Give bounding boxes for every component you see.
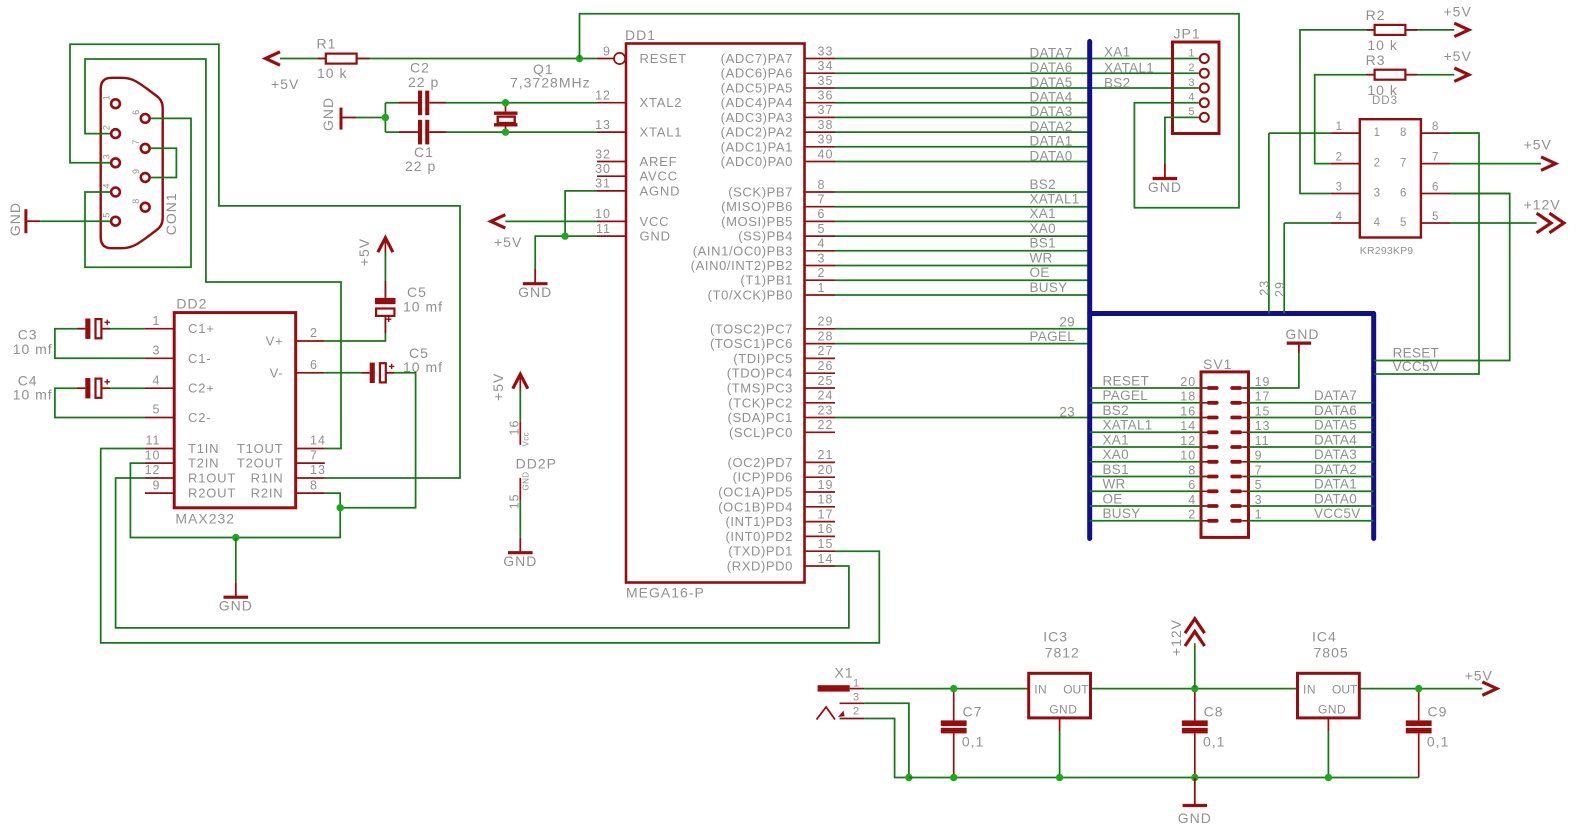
svg-text:+12V: +12V bbox=[1168, 619, 1184, 656]
svg-text:6: 6 bbox=[1432, 182, 1439, 194]
svg-text:DATA1: DATA1 bbox=[1314, 477, 1357, 492]
svg-text:(ICP)PD6: (ICP)PD6 bbox=[733, 470, 793, 485]
svg-text:(TDI)PC5: (TDI)PC5 bbox=[733, 351, 793, 366]
svg-text:4: 4 bbox=[1188, 92, 1195, 104]
svg-text:22 p: 22 p bbox=[408, 74, 439, 90]
svg-text:BUSY: BUSY bbox=[1030, 280, 1068, 295]
wire wire +5V to R1 bbox=[280, 58, 326, 60]
wire net WR (DD1 PB to bus) bbox=[835, 265, 1090, 267]
capacitor C1 bbox=[418, 120, 422, 145]
wire wire 23 (DD3 pin1 down to bus box) bbox=[1268, 133, 1270, 313]
wire DD2 gnd stub bbox=[235, 538, 237, 583]
wire wire DD3 pin7 to +5V bbox=[1450, 163, 1541, 165]
svg-text:(SCK)PB7: (SCK)PB7 bbox=[728, 185, 793, 200]
svg-text:5: 5 bbox=[102, 213, 112, 218]
DD1 left pin numbers bbox=[595, 44, 611, 236]
svg-text:GND: GND bbox=[1049, 703, 1077, 717]
wire net RESET (bus box to DD3 pin6) bbox=[1374, 194, 1510, 361]
svg-text:10 k: 10 k bbox=[1367, 82, 1397, 98]
svg-text:32: 32 bbox=[595, 147, 611, 161]
svg-text:C8: C8 bbox=[1204, 703, 1224, 719]
wire wire RESET to JP1 pin 4 (top loop) bbox=[580, 14, 1240, 208]
wire wire JP1 pin5 to GND bbox=[1165, 117, 1199, 163]
svg-text:16: 16 bbox=[508, 420, 522, 436]
svg-text:DATA6: DATA6 bbox=[1030, 60, 1073, 75]
svg-text:8: 8 bbox=[1432, 121, 1439, 133]
svg-text:6: 6 bbox=[310, 358, 318, 372]
wire wire DATA2 SV1 to bus box bbox=[1249, 476, 1374, 478]
ground symbol GND (SV1 pin19) bbox=[1298, 345, 1300, 354]
svg-text:RESET: RESET bbox=[640, 51, 687, 66]
wire net DATA1 (DD1 PA1 to bus) bbox=[835, 146, 1090, 148]
svg-text:14: 14 bbox=[1180, 419, 1196, 433]
svg-text:+5V: +5V bbox=[1524, 137, 1552, 153]
svg-text:19: 19 bbox=[1255, 375, 1271, 389]
svg-text:10 mf: 10 mf bbox=[13, 341, 53, 357]
svg-text:5: 5 bbox=[818, 222, 826, 236]
junction junction Q1 top bbox=[502, 99, 509, 106]
svg-text:2: 2 bbox=[818, 266, 826, 280]
svg-text:X1: X1 bbox=[835, 665, 854, 681]
svg-text:R2: R2 bbox=[1366, 7, 1386, 23]
capacitor C3 bbox=[85, 319, 90, 339]
svg-text:(ADC7)PA7: (ADC7)PA7 bbox=[721, 51, 793, 66]
svg-text:(TXD)PD1: (TXD)PD1 bbox=[728, 544, 793, 559]
wire wire DATA0 SV1 to bus box bbox=[1249, 505, 1374, 507]
junction junction C8 bottom bbox=[1191, 774, 1198, 781]
svg-text:20: 20 bbox=[818, 463, 834, 477]
ground symbol GND (CON1 pin5) bbox=[27, 220, 40, 222]
svg-text:C2-: C2- bbox=[188, 410, 211, 425]
svg-text:(ADC1)PA1: (ADC1)PA1 bbox=[721, 139, 793, 154]
svg-text:DATA2: DATA2 bbox=[1030, 119, 1073, 134]
power symbol +5V (left of R1) bbox=[266, 52, 281, 65]
svg-text:7: 7 bbox=[310, 448, 318, 462]
wire wire C5 to R2IN branch bbox=[340, 373, 415, 508]
svg-text:24: 24 bbox=[818, 389, 834, 403]
wire wire GND stub to junction bbox=[356, 117, 385, 119]
wire net DATA7 (DD1 PA7 to bus) bbox=[835, 58, 1199, 60]
wire net 29 (DD1 PC7 to bus) bbox=[835, 328, 1090, 330]
svg-text:XA1: XA1 bbox=[1030, 206, 1056, 221]
svg-text:(AIN1/OC0)PB3: (AIN1/OC0)PB3 bbox=[693, 243, 793, 258]
svg-text:DATA7: DATA7 bbox=[1030, 45, 1073, 60]
wire wire C3+ to DD2 pin1 bbox=[101, 328, 145, 330]
svg-text:XA0: XA0 bbox=[1030, 221, 1056, 236]
wire wire DD3 pin1 left to 23 bbox=[1269, 132, 1331, 134]
wire net XA0 (DD1 PB to bus) bbox=[835, 235, 1090, 237]
SV1 pads and pin stubs bbox=[1201, 386, 1249, 523]
svg-text:3: 3 bbox=[1374, 188, 1381, 200]
wire wire C2/C1 left junction bbox=[384, 103, 386, 132]
wire wire +5V to DD1 VCC bbox=[505, 220, 597, 222]
svg-text:WR: WR bbox=[1103, 477, 1126, 492]
svg-text:Vcc: Vcc bbox=[522, 432, 531, 447]
svg-text:(INT1)PD3: (INT1)PD3 bbox=[725, 514, 793, 529]
svg-text:IN: IN bbox=[1034, 682, 1047, 696]
DD3 pin numbers bbox=[1336, 121, 1440, 223]
svg-text:C9: C9 bbox=[1428, 703, 1448, 719]
svg-text:7: 7 bbox=[1255, 463, 1263, 477]
svg-text:DATA4: DATA4 bbox=[1030, 90, 1073, 105]
svg-text:DATA3: DATA3 bbox=[1030, 104, 1073, 119]
svg-text:9: 9 bbox=[153, 478, 161, 492]
wire wire CON1 pin5 to GND bbox=[40, 220, 110, 222]
ground symbol GND (DD2P) bbox=[519, 538, 521, 553]
svg-text:XATAL1: XATAL1 bbox=[1104, 60, 1154, 75]
junction junction Q1 bottom bbox=[502, 128, 509, 135]
svg-text:GND: GND bbox=[1285, 326, 1319, 342]
svg-text:(TDO)PC4: (TDO)PC4 bbox=[727, 366, 793, 381]
wire wire R1OUT to DD1 RXD PD0 bbox=[116, 478, 849, 628]
wire wire CON1 pin3 to DD2 R1IN bbox=[70, 44, 460, 478]
junction junction R2IN/C5- bbox=[337, 504, 344, 511]
capacitor C5 (V-) bbox=[370, 363, 375, 383]
wire wire XTAL2 net bbox=[430, 102, 597, 104]
svg-text:13: 13 bbox=[595, 118, 611, 132]
svg-text:16: 16 bbox=[1180, 404, 1196, 418]
svg-text:29: 29 bbox=[1273, 281, 1287, 297]
svg-text:7: 7 bbox=[1400, 158, 1407, 170]
power symbol +5V (DD3 pin7) bbox=[1541, 157, 1556, 170]
resistor R3 bbox=[1375, 70, 1406, 80]
wire net DATA4 (DD1 PA4 to bus) bbox=[835, 102, 1090, 104]
svg-text:DATA3: DATA3 bbox=[1314, 447, 1357, 462]
wire wire DATA6 SV1 to bus box bbox=[1249, 417, 1374, 419]
svg-text:+5V: +5V bbox=[1444, 3, 1472, 19]
svg-text:GND: GND bbox=[1318, 703, 1346, 717]
wire net PAGEL (DD1 PC6 to bus) bbox=[835, 343, 1090, 345]
svg-text:1: 1 bbox=[1188, 47, 1195, 59]
ground symbol GND (crystal caps) bbox=[342, 117, 356, 119]
svg-text:GND: GND bbox=[1178, 810, 1212, 826]
wire wire X1 pin3 down bbox=[864, 703, 909, 777]
svg-text:15: 15 bbox=[818, 537, 834, 551]
svg-text:R2OUT: R2OUT bbox=[188, 486, 236, 501]
svg-text:(ADC0)PA0: (ADC0)PA0 bbox=[721, 154, 793, 169]
wire wire DATA3 SV1 to bus box bbox=[1249, 461, 1374, 463]
svg-text:0,1: 0,1 bbox=[1427, 734, 1449, 750]
svg-text:23: 23 bbox=[818, 403, 834, 417]
svg-text:2: 2 bbox=[1374, 158, 1381, 170]
svg-text:3: 3 bbox=[153, 344, 161, 358]
svg-text:13: 13 bbox=[310, 463, 326, 477]
wire wire CON1 pin2 to DD2 T1OUT bbox=[85, 59, 341, 449]
svg-text:10 k: 10 k bbox=[317, 65, 347, 81]
wire IC3 GND pin bbox=[1059, 718, 1061, 731]
DD1 right pin stubs bbox=[805, 59, 836, 567]
voltage regulator IC4 7805 bbox=[1298, 673, 1360, 718]
svg-text:(ADC6)PA6: (ADC6)PA6 bbox=[721, 66, 793, 81]
svg-text:30: 30 bbox=[595, 162, 611, 176]
DD3 pin names (inside) bbox=[1374, 127, 1408, 229]
wire wire DD2 V- to C5 bbox=[325, 372, 370, 374]
svg-text:+12V: +12V bbox=[1524, 197, 1561, 213]
svg-text:GND: GND bbox=[518, 284, 552, 300]
wire wire DD1 GND pin bbox=[535, 236, 597, 269]
svg-text:R1IN: R1IN bbox=[251, 471, 284, 486]
wire IC4 GND pin bbox=[1327, 718, 1329, 731]
connector CON1 DB9 outline bbox=[101, 78, 163, 248]
svg-text:19: 19 bbox=[818, 478, 834, 492]
junction junction C9 top bbox=[1415, 685, 1422, 692]
svg-text:GND: GND bbox=[219, 598, 253, 614]
svg-text:+5V: +5V bbox=[490, 373, 506, 401]
svg-text:31: 31 bbox=[595, 177, 611, 191]
wire wire C4+ to DD2 pin4 bbox=[101, 387, 145, 389]
svg-text:(SS)PB4: (SS)PB4 bbox=[738, 229, 793, 244]
svg-text:1: 1 bbox=[153, 314, 161, 328]
svg-text:23: 23 bbox=[1258, 280, 1272, 296]
svg-text:(TCK)PC2: (TCK)PC2 bbox=[728, 395, 793, 410]
wire wire C5 to DD2 V+ bbox=[325, 316, 386, 341]
svg-text:(T0/XCK)PB0: (T0/XCK)PB0 bbox=[708, 288, 793, 303]
capacitor C2 bbox=[418, 91, 422, 116]
svg-text:4: 4 bbox=[102, 183, 112, 188]
svg-text:12: 12 bbox=[1180, 434, 1196, 448]
wire wire DD3 pin5 to +12V bbox=[1450, 222, 1537, 224]
power symbol +5V (output rail) bbox=[1482, 682, 1497, 695]
junction junction AGND/GND bbox=[561, 232, 568, 239]
wire wire DATA7 SV1 to bus box bbox=[1249, 402, 1374, 404]
svg-text:11: 11 bbox=[596, 222, 611, 236]
svg-text:VCC: VCC bbox=[640, 214, 670, 229]
svg-text:3: 3 bbox=[1188, 77, 1195, 89]
wire wire BUSY bus to SV1 bbox=[1090, 520, 1201, 522]
wire wire X1 pin2 down to rail bbox=[864, 719, 909, 778]
svg-text:BS1: BS1 bbox=[1103, 462, 1129, 477]
svg-text:5: 5 bbox=[1188, 106, 1195, 118]
svg-text:7: 7 bbox=[818, 193, 826, 207]
power symbol +5V (R3) bbox=[1454, 68, 1469, 81]
wire wire OE bus to SV1 bbox=[1090, 505, 1201, 507]
svg-text:5: 5 bbox=[1255, 478, 1263, 492]
svg-text:26: 26 bbox=[818, 359, 834, 373]
svg-text:DATA6: DATA6 bbox=[1314, 403, 1357, 418]
svg-text:7812: 7812 bbox=[1045, 645, 1080, 661]
svg-text:25: 25 bbox=[818, 374, 834, 388]
svg-text:5: 5 bbox=[153, 403, 161, 417]
wire wire DD3 pin8 to VCC5V bbox=[1450, 132, 1479, 134]
svg-text:XA1: XA1 bbox=[1104, 45, 1130, 60]
svg-text:9: 9 bbox=[131, 169, 141, 174]
svg-text:11: 11 bbox=[146, 434, 161, 448]
DD1 right pin numbers bbox=[818, 44, 834, 566]
svg-text:39: 39 bbox=[818, 133, 834, 147]
power symbol +5V (DD2P) bbox=[513, 374, 528, 389]
svg-text:R3: R3 bbox=[1366, 52, 1386, 68]
svg-text:DATA7: DATA7 bbox=[1314, 388, 1357, 403]
svg-text:12: 12 bbox=[145, 463, 161, 477]
wire net DATA5 (DD1 PA5 to bus) bbox=[835, 87, 1199, 89]
svg-text:RESET: RESET bbox=[1103, 373, 1150, 388]
svg-text:22 p: 22 p bbox=[405, 158, 436, 174]
wire wire +5V to C5 bbox=[384, 252, 386, 298]
svg-text:4: 4 bbox=[1188, 493, 1196, 507]
ground symbol GND (DD1) bbox=[534, 269, 536, 284]
wire wire +5V to DD2P VCC bbox=[519, 389, 521, 422]
svg-text:R2IN: R2IN bbox=[251, 486, 284, 501]
power symbol +5V (DD1 VCC) bbox=[491, 215, 506, 228]
svg-text:4: 4 bbox=[1374, 217, 1381, 229]
wire wire VCC5V SV1 to bus box bbox=[1249, 520, 1374, 522]
svg-text:T1OUT: T1OUT bbox=[237, 441, 284, 456]
svg-text:WR: WR bbox=[1030, 250, 1053, 265]
wire net DATA2 (DD1 PA2 to bus) bbox=[835, 131, 1090, 133]
crystal Q1 bbox=[494, 113, 518, 125]
CON1 pins 6-9 pads bbox=[131, 110, 149, 212]
svg-text:14: 14 bbox=[818, 552, 834, 566]
wire net BS2 (DD1 PB to bus) bbox=[835, 191, 1090, 193]
DD1 left pin stubs bbox=[597, 59, 626, 237]
svg-text:1: 1 bbox=[1255, 508, 1263, 522]
capacitor C5 (V+) bbox=[375, 298, 396, 304]
svg-text:5: 5 bbox=[1432, 211, 1439, 223]
svg-text:10: 10 bbox=[1180, 449, 1196, 463]
svg-text:1: 1 bbox=[1336, 121, 1343, 133]
svg-text:10 mf: 10 mf bbox=[403, 299, 443, 315]
svg-text:R1OUT: R1OUT bbox=[188, 471, 236, 486]
wire wire XTAL1 net bbox=[430, 131, 597, 133]
resistor R2 bbox=[1375, 25, 1406, 35]
wire wire DATA5 SV1 to bus box bbox=[1249, 431, 1374, 433]
svg-text:IN: IN bbox=[1303, 682, 1316, 696]
pin stubs (resistors/caps) bbox=[77, 30, 1417, 388]
power pin DD2P VCC pin16 bbox=[519, 421, 521, 445]
svg-text:(ADC5)PA5: (ADC5)PA5 bbox=[721, 81, 793, 96]
svg-text:(OC2)PD7: (OC2)PD7 bbox=[728, 455, 793, 470]
svg-text:13: 13 bbox=[1255, 419, 1271, 433]
svg-text:(MOSI)PB5: (MOSI)PB5 bbox=[721, 214, 793, 229]
svg-text:(TOSC2)PC7: (TOSC2)PC7 bbox=[710, 321, 793, 336]
svg-text:DATA2: DATA2 bbox=[1314, 462, 1357, 477]
svg-text:GND: GND bbox=[320, 97, 336, 131]
svg-text:8: 8 bbox=[818, 178, 826, 192]
svg-text:17: 17 bbox=[818, 507, 834, 521]
svg-text:(OC1B)PD4: (OC1B)PD4 bbox=[718, 499, 793, 514]
junction junction IC3 GND bbox=[1056, 774, 1063, 781]
svg-text:10 k: 10 k bbox=[1367, 37, 1397, 53]
svg-text:XATAL1: XATAL1 bbox=[1030, 192, 1080, 207]
wire wire T2IN to R2IN bbox=[130, 463, 340, 537]
junction junction C7 bottom bbox=[950, 774, 957, 781]
wire net BUSY (DD1 PB to bus) bbox=[835, 294, 1090, 296]
power symbol +12V (DD3 pin5) bbox=[1549, 213, 1564, 233]
svg-text:7: 7 bbox=[131, 140, 141, 145]
svg-text:6: 6 bbox=[818, 207, 826, 221]
svg-text:8: 8 bbox=[131, 199, 141, 204]
svg-text:V+: V+ bbox=[266, 334, 284, 349]
wire wire AGND down bbox=[565, 191, 597, 236]
wire wire XA0 bus to SV1 bbox=[1090, 461, 1201, 463]
svg-text:C7: C7 bbox=[963, 703, 983, 719]
power pin DD2P GND pin15 bbox=[519, 478, 521, 500]
svg-text:(T1)PB1: (T1)PB1 bbox=[740, 273, 793, 288]
svg-text:BUSY: BUSY bbox=[1103, 506, 1141, 521]
svg-text:(TOSC1)PC6: (TOSC1)PC6 bbox=[710, 336, 793, 351]
svg-text:8: 8 bbox=[1188, 463, 1196, 477]
svg-text:10: 10 bbox=[145, 448, 161, 462]
svg-text:11: 11 bbox=[1255, 434, 1270, 448]
svg-text:BS2: BS2 bbox=[1103, 403, 1129, 418]
svg-text:18: 18 bbox=[1180, 390, 1196, 404]
svg-text:12: 12 bbox=[595, 89, 611, 103]
wire wire XATAL1 bus to SV1 bbox=[1090, 431, 1201, 433]
svg-text:40: 40 bbox=[818, 147, 834, 161]
svg-text:MAX232: MAX232 bbox=[175, 511, 235, 527]
DD2 pin stubs bbox=[145, 329, 325, 493]
svg-text:XA0: XA0 bbox=[1103, 447, 1129, 462]
connector SV1 body bbox=[1201, 372, 1249, 538]
junction junction C7 top bbox=[950, 685, 957, 692]
svg-text:33: 33 bbox=[818, 44, 834, 58]
svg-text:DD2P: DD2P bbox=[516, 456, 557, 472]
wire net DATA0 (DD1 PA0 to bus) bbox=[835, 161, 1090, 163]
junction junction crystal gnd bbox=[382, 114, 389, 121]
DD1 left pin names bbox=[640, 51, 687, 244]
svg-text:(OC1A)PD5: (OC1A)PD5 bbox=[718, 485, 793, 500]
svg-text:9: 9 bbox=[1255, 449, 1263, 463]
wire wire R2 to +5V bbox=[1405, 29, 1454, 31]
svg-text:BS2: BS2 bbox=[1030, 177, 1056, 192]
junction RESET net junction bbox=[576, 55, 583, 62]
wire net XA1 (DD1 PB to bus) bbox=[835, 220, 1090, 222]
svg-text:R1: R1 bbox=[317, 36, 337, 52]
svg-text:29: 29 bbox=[1059, 315, 1075, 330]
svg-text:C2+: C2+ bbox=[188, 381, 215, 396]
bus box around SV1 bbox=[1090, 314, 1374, 539]
svg-text:10 mf: 10 mf bbox=[13, 387, 53, 403]
connector JP1 bbox=[1173, 42, 1220, 134]
svg-text:V-: V- bbox=[270, 365, 284, 380]
wire wire PAGEL bus to SV1 bbox=[1090, 402, 1201, 404]
svg-text:PAGEL: PAGEL bbox=[1030, 329, 1076, 344]
svg-text:8: 8 bbox=[310, 478, 318, 492]
svg-text:GND: GND bbox=[640, 229, 671, 244]
svg-text:2: 2 bbox=[853, 706, 860, 718]
wire wire top rail IC3 OUT to C8 bbox=[1091, 688, 1300, 690]
wire wire DATA4 SV1 to bus box bbox=[1249, 446, 1374, 448]
svg-text:MEGA16-P: MEGA16-P bbox=[626, 585, 705, 601]
svg-text:37: 37 bbox=[818, 103, 834, 117]
svg-text:T1IN: T1IN bbox=[188, 441, 219, 456]
svg-text:+5V: +5V bbox=[1465, 668, 1493, 684]
wire wire CON1 pin7 to pin9 bbox=[151, 148, 177, 177]
svg-text:BS2: BS2 bbox=[1104, 76, 1130, 91]
svg-text:20: 20 bbox=[1180, 375, 1196, 389]
ground symbol GND (DD2) bbox=[235, 582, 237, 597]
svg-text:18: 18 bbox=[818, 493, 834, 507]
svg-text:6: 6 bbox=[1400, 188, 1407, 200]
svg-text:34: 34 bbox=[818, 59, 834, 73]
svg-text:C1-: C1- bbox=[188, 351, 211, 366]
svg-text:IC3: IC3 bbox=[1043, 629, 1068, 645]
svg-text:1: 1 bbox=[102, 95, 112, 100]
svg-text:2: 2 bbox=[1188, 62, 1195, 74]
svg-text:14: 14 bbox=[310, 434, 326, 448]
svg-text:3: 3 bbox=[1336, 182, 1343, 194]
svg-text:0,1: 0,1 bbox=[962, 734, 984, 750]
wire wire XA1 bus to SV1 bbox=[1090, 446, 1201, 448]
svg-text:DATA4: DATA4 bbox=[1314, 432, 1357, 447]
svg-text:(ADC2)PA2: (ADC2)PA2 bbox=[721, 125, 793, 140]
svg-text:3: 3 bbox=[818, 251, 826, 265]
wire net OE (DD1 PB to bus) bbox=[835, 279, 1090, 281]
wire wire DATA1 SV1 to bus box bbox=[1249, 490, 1374, 492]
svg-text:6: 6 bbox=[1188, 478, 1196, 492]
wire wire DD3 pin3 to R2 bbox=[1300, 30, 1375, 194]
capacitor C8 bbox=[1182, 720, 1208, 726]
